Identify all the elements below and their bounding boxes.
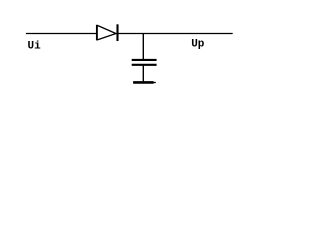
svg-text:Ui: Ui (28, 40, 42, 52)
svg-text:Up: Up (191, 39, 205, 51)
